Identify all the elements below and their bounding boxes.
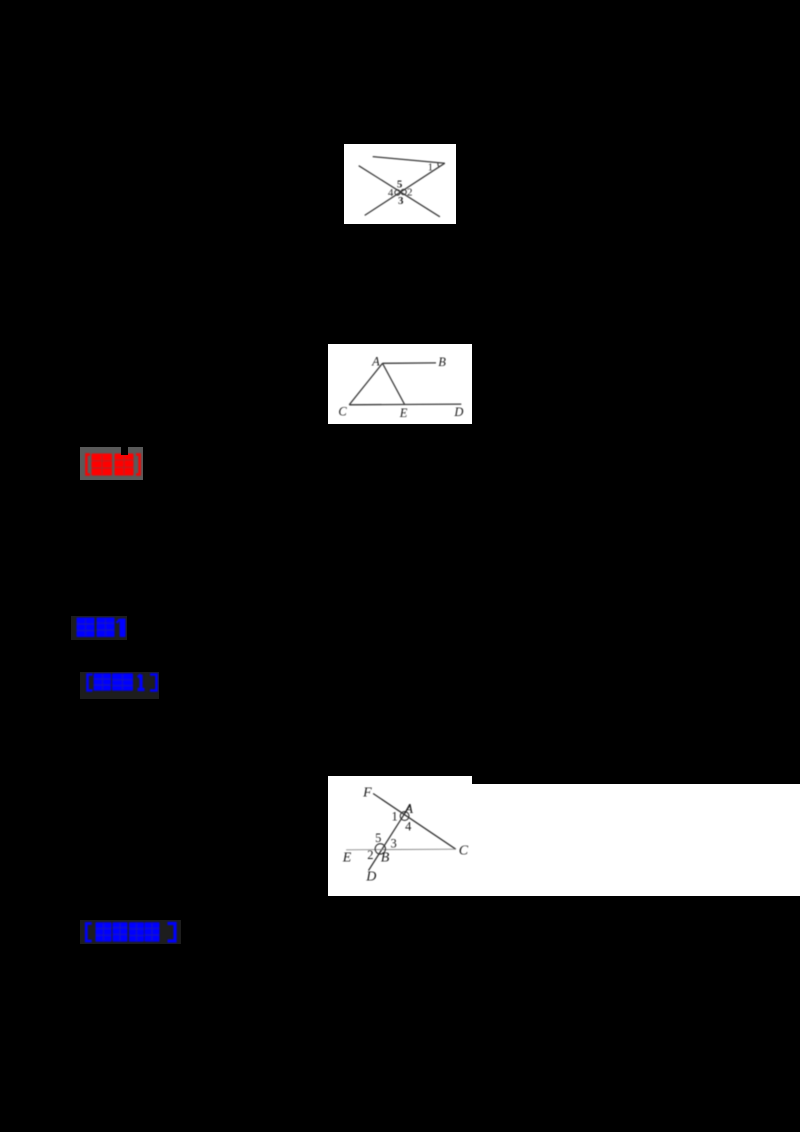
char li [112, 673, 133, 691]
angle arc at vertex 1 [438, 163, 439, 167]
figure 2 white box: triangle ACE with AB parallel CD [328, 344, 472, 424]
right bracket [150, 675, 157, 691]
svg-text:3: 3 [390, 837, 396, 851]
wire AD [369, 805, 410, 870]
left bracket [86, 924, 91, 942]
svg-text:C: C [459, 843, 469, 858]
svg-text:5: 5 [375, 831, 381, 845]
black notch on highlight [121, 447, 128, 455]
char 4 [145, 922, 160, 942]
figure 3 white band [328, 784, 800, 896]
angle circle right of crossing [401, 189, 406, 194]
figure 3 white sliver [328, 776, 472, 784]
wire CD [349, 403, 461, 406]
char 2 [113, 922, 128, 942]
figure 3 geometry [328, 776, 480, 896]
left bracket [88, 675, 93, 691]
wire: line upper-left to lower-right [359, 166, 440, 217]
wire: top line to vertex [373, 157, 445, 164]
wire FC [373, 794, 456, 850]
blue heading 2 [80, 672, 159, 699]
svg-text:C: C [338, 405, 347, 419]
svg-text:D: D [453, 405, 463, 419]
svg-text:F: F [362, 786, 372, 801]
char dian [94, 673, 111, 691]
svg-text:D: D [365, 870, 376, 885]
char jie [92, 454, 113, 476]
svg-text:1: 1 [428, 163, 433, 174]
wire: line from vertex down-left [365, 163, 445, 215]
red highlighted label [80, 447, 143, 480]
svg-text:4: 4 [388, 187, 394, 199]
left bracket [86, 455, 90, 475]
blue heading 3 [80, 920, 181, 944]
svg-text:3: 3 [398, 195, 404, 207]
right bracket [136, 455, 140, 475]
angle circle left of crossing [395, 190, 400, 195]
svg-text:A: A [371, 355, 380, 369]
svg-text:4: 4 [405, 819, 412, 833]
svg-text:1: 1 [391, 809, 397, 823]
svg-text:5: 5 [397, 179, 403, 191]
angle circle at A [400, 812, 409, 821]
char dian [97, 618, 115, 638]
figure 1 white box: crossing lines with angles 1-5 [344, 144, 456, 224]
wire AE [383, 363, 405, 404]
svg-text:2: 2 [367, 848, 373, 862]
digit 1 [120, 619, 126, 638]
svg-text:E: E [399, 406, 408, 420]
svg-text:A: A [404, 802, 414, 817]
wire CA [349, 363, 382, 405]
wire AB [383, 362, 437, 364]
svg-text:B: B [438, 355, 446, 369]
char 3 [129, 922, 144, 942]
char 1 [96, 922, 112, 942]
right bracket [168, 924, 176, 942]
wire EC [346, 848, 456, 851]
svg-text:E: E [342, 851, 352, 866]
char xi [115, 454, 134, 476]
svg-text:2: 2 [407, 187, 413, 199]
blue heading 1 [71, 616, 127, 640]
svg-text:B: B [381, 851, 390, 866]
digit 1 [138, 675, 145, 690]
char zhong [77, 618, 95, 638]
angle circle at B [375, 844, 385, 854]
